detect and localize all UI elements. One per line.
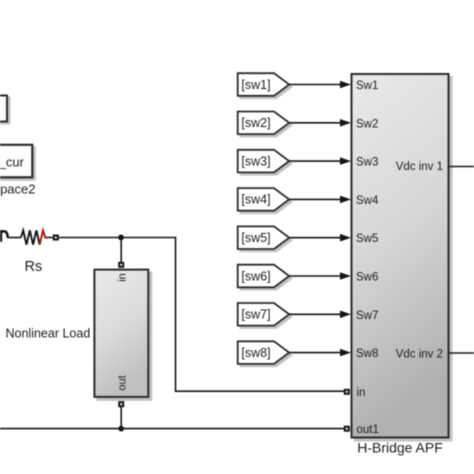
svg-text:[sw3]: [sw3]: [241, 154, 270, 168]
svg-text:H-Bridge APF: H-Bridge APF: [357, 440, 443, 456]
From tag [sw2]: [238, 112, 292, 137]
signal arrow sw3: [290, 157, 352, 165]
svg-text:[sw7]: [sw7]: [241, 308, 270, 322]
output wire Vdc inv 2: [450, 352, 474, 354]
svg-text:[sw2]: [sw2]: [241, 116, 270, 130]
svg-text:Sw2: Sw2: [356, 118, 378, 130]
svg-text:[sw1]: [sw1]: [241, 78, 270, 92]
signal arrow sw5: [290, 234, 352, 242]
wire to H-Bridge in: [175, 390, 344, 392]
svg-text:Sw4: Sw4: [356, 195, 379, 207]
junction B: [118, 426, 124, 432]
wire from source to resistor: [7, 237, 21, 239]
port square (resistor right terminal): [53, 235, 59, 241]
resistor Rs: [21, 230, 53, 244]
To Workspace block load_cur: [0, 145, 35, 180]
wire junction A down to Nonlinear Load in: [120, 238, 122, 263]
svg-text:_cur: _cur: [0, 155, 25, 170]
svg-text:Sw1: Sw1: [356, 80, 378, 92]
wire Nonlinear Load out down to junction B: [120, 407, 122, 429]
output wire Vdc inv 1: [450, 166, 474, 168]
svg-text:Nonlinear Load: Nonlinear Load: [6, 327, 91, 341]
signal arrow sw7: [290, 311, 352, 319]
port square (H-Bridge out1): [344, 426, 350, 432]
block U0 (partially cut, top-left): [0, 96, 10, 124]
svg-text:Sw3: Sw3: [356, 157, 378, 169]
From tag [sw5]: [238, 226, 292, 251]
wire resistor to junction A: [59, 237, 120, 239]
From tag [sw8]: [238, 341, 292, 366]
wire corner down: [175, 237, 177, 391]
svg-text:Rs: Rs: [25, 259, 43, 275]
From tag [sw7]: [238, 303, 292, 328]
signal arrow sw8: [290, 349, 352, 357]
svg-text:Vdc inv 2: Vdc inv 2: [396, 349, 443, 361]
port square (Nonlinear Load in): [118, 262, 124, 268]
signal arrow sw4: [290, 196, 352, 204]
svg-text:Sw6: Sw6: [356, 272, 378, 284]
From tag [sw3]: [238, 150, 292, 175]
svg-text:[sw6]: [sw6]: [241, 269, 270, 283]
wire bottom bus to H-Bridge out1: [0, 428, 344, 430]
signal arrow sw6: [290, 272, 352, 280]
source stub (cut, left edge): [0, 230, 8, 242]
svg-text:[sw8]: [sw8]: [241, 346, 270, 360]
port square (Nonlinear Load out): [118, 401, 124, 407]
svg-text:in: in: [357, 387, 366, 399]
svg-text:Sw7: Sw7: [356, 310, 378, 322]
svg-text:out: out: [117, 375, 129, 390]
port square (H-Bridge in): [344, 389, 350, 395]
Nonlinear Load block: [94, 270, 151, 400]
junction A: [118, 235, 124, 241]
svg-text:out1: out1: [357, 424, 379, 436]
svg-text:Vdc inv 1: Vdc inv 1: [396, 161, 443, 173]
svg-text:Sw8: Sw8: [356, 348, 378, 360]
svg-text:[sw5]: [sw5]: [241, 231, 270, 245]
svg-text:Sw5: Sw5: [356, 233, 378, 245]
signal arrow sw2: [290, 119, 352, 127]
wire junction A to corner: [120, 237, 176, 239]
svg-text:[sw4]: [sw4]: [241, 193, 270, 207]
From tag [sw1]: [238, 73, 292, 98]
svg-text:pace2: pace2: [0, 182, 35, 197]
From tag [sw4]: [238, 188, 292, 213]
H-Bridge APF block: [352, 74, 452, 441]
signal arrow sw1: [290, 81, 352, 89]
From tag [sw6]: [238, 265, 292, 290]
svg-text:in: in: [117, 273, 129, 282]
